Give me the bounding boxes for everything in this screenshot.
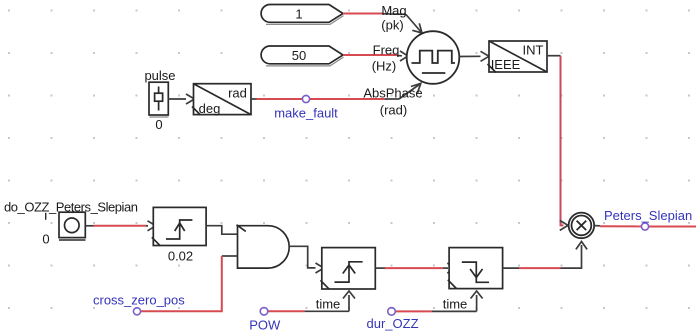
wire sampler2 to multiplier: [503, 242, 587, 269]
wire delay to AND gate upper input: [206, 226, 237, 235]
wire POW time input: [268, 310, 349, 312]
wire multiplier output to Peters_Slepian: [594, 225, 696, 228]
port label AbsPhase (rad): [363, 86, 422, 118]
node Peters_Slepian: [604, 208, 692, 230]
sampler block S1 (rising edge, time input): [321, 248, 376, 312]
svg-text:cross_zero_pos: cross_zero_pos: [93, 293, 185, 308]
pulse source component: [149, 82, 169, 117]
node POW: [249, 308, 281, 331]
svg-text:1: 1: [295, 7, 302, 22]
wire generator to IEEE block: [459, 51, 489, 61]
wire switch to delay block: [85, 221, 156, 231]
signal generator U1 (square wave source): [407, 31, 460, 84]
node dur_OZZ: [367, 308, 419, 331]
svg-text:50: 50: [292, 48, 306, 63]
svg-text:AbsPhase: AbsPhase: [363, 86, 422, 101]
IEEE to INT converter block: [488, 41, 548, 73]
svg-text:(Hz): (Hz): [372, 59, 397, 74]
svg-text:(rad): (rad): [380, 103, 407, 118]
node cross_zero_pos: [93, 293, 185, 315]
svg-text:POW: POW: [249, 318, 281, 331]
wire pulse to deg2rad: [168, 94, 194, 104]
svg-text:time: time: [316, 297, 341, 312]
wire AND output to sampler1: [289, 246, 324, 273]
wire cross_zero_pos to AND gate lower input: [141, 256, 238, 311]
svg-text:0.02: 0.02: [168, 249, 193, 264]
svg-text:deg: deg: [199, 101, 221, 116]
svg-text:INT: INT: [523, 43, 544, 58]
svg-text:Mag: Mag: [381, 3, 406, 18]
rotary switch do_OZZ_Peters_Slepian: [46, 212, 86, 240]
svg-text:pulse: pulse: [144, 68, 175, 83]
wire Freq: [343, 51, 408, 61]
delay block 0.02: [152, 207, 206, 245]
svg-text:Freq: Freq: [373, 43, 400, 58]
wire Mag: [343, 14, 422, 34]
wire IEEE output down to multiplier: [547, 56, 568, 231]
deg to rad converter block: [192, 84, 251, 115]
wire AbsPhase with make_fault tap: [251, 83, 421, 99]
wire dur_OZZ time input: [395, 310, 476, 312]
constant CONST1 value 1: [261, 5, 343, 25]
node make_fault: [274, 95, 338, 120]
port label Mag (pk): [381, 3, 406, 33]
svg-text:IEEE: IEEE: [491, 57, 521, 72]
wire sampler1 to sampler2: [375, 263, 455, 273]
svg-text:dur_OZZ: dur_OZZ: [367, 316, 419, 331]
sampler block S2 (falling edge, time input): [448, 248, 503, 312]
svg-text:(pk): (pk): [381, 18, 403, 33]
svg-text:rad: rad: [228, 86, 247, 101]
port label Freq (Hz): [372, 43, 400, 74]
svg-text:Peters_Slepian: Peters_Slepian: [604, 208, 692, 223]
svg-text:do_OZZ_Peters_Slepian: do_OZZ_Peters_Slepian: [4, 200, 138, 215]
svg-text:time: time: [443, 297, 468, 312]
svg-text:make_fault: make_fault: [274, 106, 338, 121]
svg-text:0: 0: [42, 232, 49, 247]
multiplier U2: [569, 213, 595, 239]
constant CONST2 value 50: [261, 46, 343, 66]
AND gate: [237, 225, 290, 268]
svg-text:0: 0: [155, 117, 162, 132]
